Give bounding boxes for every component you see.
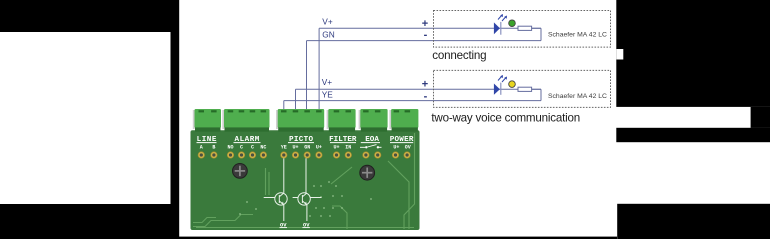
terminal block J5 (EOA) xyxy=(359,109,388,132)
resistor R1 (module 1) xyxy=(518,26,532,30)
PCB trace bundle bottom-left xyxy=(193,215,414,228)
PCB trace right edge xyxy=(266,133,415,229)
svg-text:C: C xyxy=(240,145,243,151)
PCB label ALARM xyxy=(234,136,261,144)
svg-text:OV: OV xyxy=(405,145,411,151)
wire: PICTO pin GN (pin3) vertical drop to GN line xyxy=(306,41,308,112)
svg-text:B: B xyxy=(212,145,215,151)
terminal block J2 (ALARM) xyxy=(222,109,269,132)
net label 0V (Q2) xyxy=(302,222,310,228)
wire: R1 output xyxy=(532,27,541,29)
svg-text:YE: YE xyxy=(322,89,334,99)
pin labels LINE: A B xyxy=(200,145,216,151)
PCB label EOA xyxy=(361,136,380,144)
resistor R2 (module 2) xyxy=(518,87,532,91)
svg-text:U+: U+ xyxy=(292,145,298,151)
mounting screw left xyxy=(233,164,248,179)
svg-text:NC: NC xyxy=(260,145,266,151)
svg-text:IN: IN xyxy=(345,145,351,151)
solder pads LINE xyxy=(198,152,217,159)
indicator lamp (yellow) module 2 xyxy=(509,81,516,88)
net label 0V (Q1) xyxy=(280,222,288,228)
svg-text:U+: U+ xyxy=(333,145,339,151)
wire: PICTO pin U+ (pin2) vertical drop to V+ line of module 2 xyxy=(295,89,297,112)
terminal block J6 (POWER) xyxy=(389,109,418,132)
terminal block J1 (LINE) xyxy=(193,109,221,132)
PCB label LINE xyxy=(197,136,217,144)
LED D2 (module 2) xyxy=(494,83,501,95)
pin labels FILTER: U+ IN xyxy=(333,145,351,151)
PCB board xyxy=(191,130,420,230)
module U1 "Schaefer MA 42 LC" dashed enclosure xyxy=(434,11,611,48)
pin labels PICTO: YE U+ GN U+ xyxy=(281,145,322,151)
svg-text:Schaefer MA 42 LC: Schaefer MA 42 LC xyxy=(548,31,607,38)
svg-text:-: - xyxy=(424,29,428,41)
wire: PICTO pin U+ (pin4) vertical drop to V+ line of module 1 xyxy=(318,28,320,112)
svg-text:C: C xyxy=(251,145,254,151)
PCB vias / test point dots xyxy=(239,181,372,217)
PCB label PICTO xyxy=(288,136,314,144)
trace: Q1 emitter to 0V xyxy=(283,205,285,221)
solder pads FILTER xyxy=(333,152,351,159)
svg-text:-: - xyxy=(424,90,428,102)
LED D1 emission arrows xyxy=(498,14,507,21)
solder pads EOA xyxy=(363,152,381,159)
transistor Q1 xyxy=(264,193,287,205)
wire: R2 output xyxy=(532,88,541,90)
PCB label FILTER xyxy=(329,136,357,144)
transistor Q2 xyxy=(293,193,322,205)
svg-text:V+: V+ xyxy=(322,77,333,87)
trace: Q2 emitter to 0V xyxy=(306,205,308,221)
module U2 "Schaefer MA 42 LC" dashed enclosure xyxy=(434,70,611,107)
pin labels ALARM: NO C C NC xyxy=(227,145,266,151)
solder pads ALARM xyxy=(227,152,267,159)
svg-text:V+: V+ xyxy=(322,16,333,26)
svg-text:+: + xyxy=(422,78,428,90)
pin labels POWER: U+ OV xyxy=(393,145,410,151)
trace: GN pad down to transistor Q2 xyxy=(305,158,307,193)
wire: YE return line into module 2 (minus terminal) xyxy=(284,100,541,102)
svg-text:U+: U+ xyxy=(316,145,322,151)
svg-text:NO: NO xyxy=(227,145,233,151)
PCB label POWER xyxy=(390,136,414,144)
wire: PICTO pin YE (pin1) vertical drop to YE line xyxy=(283,101,285,112)
wire: module 2 internal return (vertical) xyxy=(540,89,542,100)
solder pads POWER xyxy=(392,152,410,159)
svg-text:Schaefer MA 42 LC: Schaefer MA 42 LC xyxy=(548,93,607,100)
LED D1 (module 1) xyxy=(494,22,501,35)
svg-text:GN: GN xyxy=(322,29,334,39)
svg-text:connecting: connecting xyxy=(432,49,486,62)
solder pads PICTO xyxy=(281,152,323,159)
wire: V+ line to module 2 LED anode xyxy=(296,88,542,90)
EOA switch symbol xyxy=(360,145,382,149)
LED D2 emission arrows xyxy=(498,75,507,82)
terminal block J3 (PICTO) xyxy=(276,109,324,132)
svg-text:two-way voice communication: two-way voice communication xyxy=(431,111,580,124)
wire: GN return line into module 1 (minus terminal) xyxy=(307,40,542,42)
svg-text:YE: YE xyxy=(281,145,287,151)
terminal block J4 (FILTER) xyxy=(327,109,356,132)
mounting screw right xyxy=(360,165,375,180)
wire: V+ line to module 1 LED anode xyxy=(319,27,541,29)
wire: module 1 internal return (vertical) xyxy=(540,28,542,40)
svg-text:U+: U+ xyxy=(393,145,399,151)
indicator lamp (green) module 1 xyxy=(509,20,516,27)
svg-text:GN: GN xyxy=(304,145,310,151)
svg-text:A: A xyxy=(200,145,203,151)
trace: YE pad down to transistor Q1 xyxy=(283,158,285,193)
